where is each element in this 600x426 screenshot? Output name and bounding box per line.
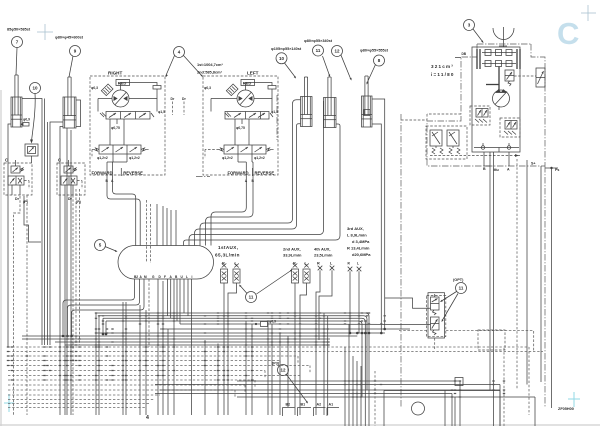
svg-text:9: 9 — [74, 49, 77, 54]
pump drive shaft — [498, 67, 500, 91]
svg-text:A1: A1 — [329, 403, 334, 407]
wire pump right down1 — [540, 166, 542, 382]
plugged port aux3L — [357, 267, 362, 272]
pilot mesh row 14 — [8, 407, 145, 409]
opt valve spool 1 — [431, 297, 440, 310]
svg-text:φ1,5: φ1,5 — [158, 110, 165, 114]
control valve body — [118, 246, 214, 280]
page edge bottom — [0, 424, 600, 426]
svg-text:5: 5 — [99, 243, 102, 248]
cv out trunk feed 1 — [183, 279, 185, 313]
svg-text:B2: B2 — [286, 403, 291, 407]
wire aux2R down — [294, 283, 296, 415]
wire aux3R down — [349, 271, 351, 333]
leader 12t — [341, 55, 351, 78]
travel motor right orifice — [153, 86, 161, 90]
cylinder CYL2 port rod side — [50, 122, 63, 345]
pump case drain stub — [498, 106, 500, 110]
mesh vertical 11 — [245, 321, 247, 415]
svg-text:φ1,2×2: φ1,2×2 — [222, 156, 233, 160]
svg-text:R 13,4L/min: R 13,4L/min — [347, 246, 370, 251]
wire cv top 6 — [162, 206, 164, 246]
gauge port 2 — [507, 146, 511, 150]
svg-text:A2: A2 — [317, 403, 322, 407]
svg-text:3: 3 — [468, 23, 471, 28]
servo valve spring — [508, 81, 511, 86]
travel motor left pilot dashes — [205, 149, 219, 151]
pilot valve PV2 solenoid — [64, 166, 73, 173]
svg-text:R: R — [348, 262, 351, 266]
leader 11opt b — [443, 294, 459, 321]
opt valve spring 2 — [433, 330, 437, 335]
svg-text:11: 11 — [249, 295, 254, 300]
cylinder CYL4 piston — [324, 115, 337, 117]
travel motor right motor circle — [112, 90, 129, 107]
svg-text:(P): (P) — [76, 200, 82, 204]
cv out 8 — [176, 279, 178, 321]
wire Ps horiz — [545, 167, 558, 169]
leader 4 left — [166, 56, 175, 77]
svg-text:8: 8 — [378, 58, 381, 63]
pilot PV2 drop dashed b — [75, 189, 77, 345]
mesh vertical 268 — [267, 321, 269, 415]
pilot mesh row 11 — [8, 394, 160, 396]
pilot PV2 drop 1 — [64, 195, 66, 415]
pilot valve PV2 spool — [61, 176, 77, 185]
cylinder CYL5 barrel — [362, 96, 373, 127]
svg-text:10: 10 — [32, 86, 38, 91]
wire cv top 7 — [166, 208, 168, 246]
mesh vertical 14 — [287, 336, 289, 407]
lower trunk drops right — [459, 381, 461, 426]
opt valve enclosure — [427, 296, 446, 337]
svg-text:11: 11 — [316, 48, 321, 53]
cylinder CYL5 rod side pipe — [372, 99, 385, 329]
cv out dashed — [148, 279, 150, 347]
pilot filter 1 — [430, 130, 442, 146]
lower trunk 2 — [155, 384, 500, 386]
balloon 11 — [246, 292, 257, 303]
mesh vertical 2 — [98, 316, 100, 415]
cv out 7 — [173, 279, 175, 415]
mesh vertical 349 — [348, 325, 350, 426]
balloon 10 — [30, 83, 41, 94]
cylinder CYL4 rod — [327, 77, 329, 116]
small component box — [455, 378, 463, 386]
wire cv dashed 2 — [150, 204, 152, 263]
pilot mesh row 6 — [8, 370, 265, 372]
pilot PV2 drop dashed — [72, 195, 74, 415]
opt valve outer box — [428, 293, 445, 338]
svg-text:321cm³: 321cm³ — [431, 64, 454, 69]
opt valve down — [434, 338, 436, 350]
leader 7 — [16, 48, 17, 76]
swash plate — [486, 84, 499, 86]
svg-text:d 3,4MPa: d 3,4MPa — [352, 239, 370, 244]
lower trunk 1 — [237, 380, 460, 382]
svg-text:C: C — [5, 158, 8, 163]
svg-text:φ80×φ55×555st: φ80×φ55×555st — [360, 49, 389, 53]
cylinder CYL1 piston — [11, 114, 22, 116]
svg-text:FORWARD: FORWARD — [92, 171, 113, 176]
svg-text:DB: DB — [462, 52, 467, 56]
wire left verticals b — [47, 122, 49, 345]
svg-text:(OPT): (OPT) — [453, 278, 464, 282]
mesh vertical 16 — [356, 361, 358, 426]
balloon 7 — [12, 37, 23, 48]
balloon 3 — [464, 20, 475, 31]
cylinder CYL5 rod — [364, 76, 366, 115]
leader 11 to aux1L — [240, 286, 247, 294]
svg-text:φ0,75: φ0,75 — [111, 126, 120, 130]
gear train left bearing — [476, 49, 478, 69]
svg-text:ZF05H00: ZF05H00 — [558, 407, 574, 411]
mesh vertical 327 — [327, 316, 329, 415]
travel motor left RED tag — [241, 80, 255, 86]
svg-text:RED: RED — [118, 81, 127, 86]
pilot mesh row 4 — [8, 360, 280, 362]
mesh vertical 4 — [125, 302, 127, 415]
travel motor left orifice — [268, 86, 276, 90]
travel motor right divider — [120, 168, 122, 176]
lower trunk 3 — [160, 389, 500, 391]
svg-text:1st:1004,7cm³: 1st:1004,7cm³ — [197, 62, 223, 67]
cylinder CYL3 rod side pipe — [200, 100, 301, 246]
pilot valve PV2 ports — [64, 185, 66, 195]
leader 5 — [105, 247, 116, 252]
leader 9 — [69, 56, 73, 77]
travel motor left outlet pipes — [237, 154, 239, 162]
gauge port bus — [474, 147, 519, 149]
wire aux2L down — [300, 283, 307, 415]
trunk line 3 — [102, 318, 104, 334]
svg-text:2nd:585,8cm³: 2nd:585,8cm³ — [197, 70, 223, 75]
svg-text:REVERSE: REVERSE — [255, 171, 275, 176]
mesh vertical 18 — [374, 371, 376, 426]
svg-text:U: U — [181, 275, 184, 279]
cylinder CYL2 port head side — [60, 127, 63, 416]
svg-text:L: L — [330, 262, 333, 266]
balloon 12 — [278, 365, 289, 376]
wire left motor A to valve — [211, 176, 246, 246]
coupler aux1R body — [221, 269, 228, 283]
trunk line 9 — [22, 338, 330, 340]
mesh vertical 8 — [167, 329, 169, 415]
registration cross top-right — [581, 12, 596, 14]
wire right motor A to valve — [113, 176, 136, 246]
cylinder CYL2 right pipe — [76, 100, 81, 127]
cylinder CYL2 piston — [63, 115, 76, 117]
mesh vertical 15 — [352, 356, 354, 426]
coupler aux2R plug X — [293, 264, 298, 268]
cv out 4 — [157, 279, 159, 415]
tank unit partition — [444, 391, 446, 426]
balloon 12t — [332, 46, 343, 57]
travel motor left brake spring left — [219, 148, 224, 151]
svg-text:Dr: Dr — [68, 197, 73, 201]
lower trunk 4 — [155, 393, 452, 395]
cv out 9 — [179, 279, 181, 324]
leader 8 — [367, 65, 376, 84]
svg-text:B: B — [483, 167, 486, 171]
svg-text:A: A — [140, 275, 143, 279]
cylinder CYL2 rod — [67, 77, 69, 116]
trunk line 9b — [55, 341, 330, 343]
wire S+ down — [526, 160, 528, 385]
svg-text:B1: B1 — [301, 403, 306, 407]
pilot valve PV1 solenoid — [11, 166, 20, 173]
gear housing box — [472, 47, 520, 152]
svg-text:A: A — [170, 275, 173, 279]
orifice phi09 — [261, 322, 268, 327]
svg-text:11: 11 — [459, 286, 464, 291]
mesh vertical 1 — [95, 313, 97, 415]
trunk line 6 — [160, 328, 410, 330]
travel motor right brake spring right — [141, 148, 146, 151]
travel motor right shock valve — [101, 84, 113, 96]
cv out 3 — [72, 279, 145, 336]
coupler aux2L plug X — [304, 264, 309, 268]
wire Ps down — [551, 168, 553, 408]
svg-text:φ0,3: φ0,3 — [91, 86, 98, 90]
mesh vertical 9 — [204, 340, 206, 415]
leader 11 to aux2R — [257, 271, 292, 295]
travel motor left brake spring right — [266, 148, 271, 151]
cylinder CYL4 rod side pipe — [189, 101, 324, 246]
travel motor right brake spring left — [94, 148, 99, 151]
coupler aux1L body — [233, 269, 240, 283]
svg-text:1stAUX,: 1stAUX, — [218, 245, 238, 250]
cv out 6 — [170, 279, 172, 318]
hose break symbol box — [25, 144, 38, 156]
svg-text:L: L — [357, 262, 359, 266]
regulator 2 valve — [505, 121, 517, 130]
wire aux1L down — [228, 283, 237, 415]
registration cross top-left — [37, 31, 53, 33]
left motor drain stub — [196, 176, 210, 178]
opt valve feed 1 — [385, 298, 431, 308]
regulator 1 valve — [476, 109, 488, 118]
plugged port aux4L — [330, 266, 335, 271]
travel motor right piping top — [121, 83, 158, 91]
pump unit enclosure dash-dot — [477, 43, 531, 45]
pilot mesh row 13 — [8, 403, 150, 405]
pilot mesh row 5 — [8, 365, 310, 367]
wire cv top 5 — [156, 204, 158, 246]
pilot valve PV1 enclosure — [4, 163, 32, 195]
leader 11t — [323, 56, 330, 76]
svg-text:φ1,2×2: φ1,2×2 — [129, 156, 140, 160]
mesh vertical 324 — [323, 313, 325, 415]
svg-text:φ1,2×2: φ1,2×2 — [254, 156, 265, 160]
plugged port aux4R — [318, 266, 323, 271]
wire pump Mu down — [493, 152, 495, 426]
lower trunk 5 — [237, 396, 535, 398]
balloon 9 — [70, 46, 81, 57]
cylinder CYL1 port head side — [8, 124, 11, 347]
cylinder CYL1 port rod side — [22, 99, 42, 346]
gear shaft 1 — [482, 52, 516, 54]
travel motor left spool row — [225, 112, 269, 120]
svg-text:F: F — [164, 275, 166, 279]
svg-text:FORWARD: FORWARD — [228, 171, 249, 176]
cylinder CYL2 barrel — [63, 97, 76, 128]
travel motor right enclosure — [90, 76, 165, 175]
svg-text:φ105×φ55×140st: φ105×φ55×140st — [271, 47, 302, 51]
wire left pair down3b — [70, 200, 72, 415]
trunk line 5 with orifice — [180, 323, 260, 325]
pilot mesh row 1 — [8, 346, 529, 348]
terminal dots row 333 — [349, 332, 352, 335]
pilot mesh row 3 — [8, 355, 298, 357]
balloon 8 — [374, 55, 385, 66]
trunk line 7 — [96, 332, 385, 334]
mesh vertical 13 — [279, 333, 281, 415]
right mesh vertical dashed — [503, 348, 505, 426]
trunk line 8 — [22, 335, 357, 337]
travel motor left enclosure — [203, 76, 278, 175]
pilot valve PV1 spool — [8, 176, 24, 185]
cylinder CYL3 rod — [303, 77, 305, 115]
page edge left — [0, 90, 2, 426]
mesh vertical 10 — [217, 344, 219, 416]
svg-text:i=11/80: i=11/80 — [431, 72, 455, 77]
svg-text:L 8,9L/min: L 8,9L/min — [347, 233, 367, 238]
gear train right bearing — [516, 49, 518, 69]
opt valve spool 2 — [431, 317, 440, 330]
travel motor left shock valve — [226, 84, 238, 96]
svg-text:φ0,3: φ0,3 — [204, 86, 211, 90]
cylinder CYL1 cushion orifice — [23, 123, 29, 127]
pilot PV1 drop solid jog — [24, 196, 41, 242]
svg-text:33,9L/min: 33,9L/min — [283, 253, 302, 258]
wire aux1R down — [223, 283, 225, 415]
svg-text:Dr: Dr — [171, 97, 175, 101]
section divider dash-dot right — [544, 166, 546, 408]
cv out 5 — [167, 279, 169, 316]
svg-text:B2: B2 — [134, 275, 138, 279]
svg-text:65,3L/min: 65,3L/min — [215, 253, 240, 258]
travel motor left divider — [252, 168, 254, 176]
pilot mesh row 12 — [8, 399, 155, 401]
pilot valve PV1 pilot line — [24, 180, 29, 182]
pilot PV1 drop dashed 1 — [14, 196, 21, 415]
regulator 2 spring — [504, 131, 508, 135]
mesh vertical 6 — [145, 310, 147, 415]
left termination dots — [62, 335, 65, 338]
svg-text:φ80×φ45×600st: φ80×φ45×600st — [55, 36, 84, 40]
mesh vertical 5 — [139, 305, 141, 415]
leader 4 right — [184, 56, 203, 77]
travel motor left brake valve — [224, 145, 266, 154]
pilot mesh row 2 — [8, 351, 543, 353]
wire left motor B to valve — [206, 176, 254, 246]
cylinder CYL5 piston seal — [364, 110, 370, 116]
gauge port 1 — [481, 146, 485, 150]
svg-text:Mu: Mu — [494, 168, 499, 172]
left motor case dash-dot — [276, 95, 278, 140]
svg-text:10: 10 — [279, 56, 285, 61]
registration mark bottom-left — [8, 394, 10, 412]
travel motor right spool row — [106, 112, 150, 120]
mesh vertical 12 — [251, 324, 253, 415]
pilot valve PV1 ports — [11, 185, 13, 195]
svg-text:Dr: Dr — [182, 97, 186, 101]
wire aux3L down — [358, 271, 360, 333]
wire right motor B to valve — [107, 176, 140, 246]
cylinder CYL5 head side pipe — [372, 124, 381, 333]
cylinder CYL5 piston — [362, 114, 373, 116]
pilot valve PV2 enclosure — [57, 163, 85, 195]
svg-text:LEFT: LEFT — [247, 71, 259, 76]
trunk line 10 — [65, 344, 330, 346]
coupler aux1L plug X — [234, 264, 239, 268]
svg-text:(P3): (P3) — [272, 362, 280, 366]
travel motor right pilot dashes — [92, 149, 94, 151]
svg-text:4: 4 — [146, 415, 149, 421]
gauge stubs — [482, 143, 484, 146]
balloon 11t — [313, 45, 324, 56]
servo valve — [505, 70, 514, 81]
engine flywheel arc — [493, 28, 514, 40]
svg-text:B: B — [175, 275, 178, 279]
travel motor left piping top — [246, 83, 273, 91]
svg-text:Dr: Dr — [15, 197, 20, 201]
svg-text:RED: RED — [243, 81, 252, 86]
hose box line down — [31, 156, 33, 163]
mesh vertical 345 — [344, 347, 346, 426]
wire left pair down2 — [66, 128, 68, 196]
cylinder CYL3 barrel — [301, 97, 313, 127]
mesh vertical 272 — [271, 324, 273, 415]
cylinder CYL4 head side pipe — [184, 124, 341, 246]
leader 3 — [473, 29, 483, 42]
pilot valve PV2 spring — [73, 168, 77, 171]
plugged port aux3R — [348, 267, 353, 272]
wire left pair down2b — [66, 196, 68, 415]
leader 10 curve — [32, 94, 36, 142]
travel motor right spool springs — [100, 113, 104, 117]
svg-text:φ80×φ55×340st: φ80×φ55×340st — [304, 39, 333, 43]
travel motor right RED tag — [116, 80, 130, 86]
travel motor left motor circle — [237, 90, 254, 107]
svg-text:12: 12 — [280, 368, 286, 373]
terminal dots rows left — [102, 333, 105, 336]
svg-text:12: 12 — [334, 49, 340, 54]
svg-text:C: C — [557, 16, 579, 51]
cv out trunk feed 3 — [191, 279, 193, 415]
wire pump B down — [489, 152, 491, 390]
cylinder CYL3 piston — [301, 114, 313, 116]
svg-text:d20,6MPa: d20,6MPa — [352, 252, 371, 257]
svg-text:4th AUX,: 4th AUX, — [314, 247, 331, 252]
wire aux4L down — [319, 270, 332, 340]
opt valve out dashed left — [399, 330, 427, 332]
pilot valve PV2 pilot line — [77, 180, 82, 182]
opt valve spring 1 — [433, 310, 437, 315]
svg-text:G: G — [152, 275, 155, 279]
registration mark bottom-right — [573, 392, 575, 407]
trunk line 2 — [99, 316, 367, 390]
travel motor left mid pipes — [234, 119, 236, 145]
svg-text:φ0,9: φ0,9 — [23, 118, 30, 122]
junction dots — [7, 313, 505, 397]
leader 10b — [285, 63, 296, 78]
wire pilot dashed down — [516, 159, 518, 390]
mesh vertical 17 — [360, 366, 362, 426]
svg-text:2nd AUX,: 2nd AUX, — [283, 247, 301, 252]
pilot filter 2 — [447, 130, 459, 146]
